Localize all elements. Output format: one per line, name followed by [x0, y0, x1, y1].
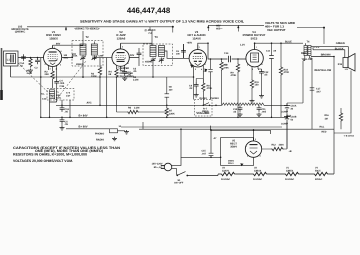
heater chain wire — [218, 129, 334, 175]
label V4 — [243, 30, 266, 40]
svg-text:2: 2 — [247, 155, 248, 158]
capacitor C17 — [310, 88, 315, 90]
output transformer T4 — [304, 46, 311, 56]
svg-text:2: 2 — [190, 64, 191, 67]
svg-text:5: 5 — [122, 46, 123, 49]
svg-text:C1B: C1B — [60, 85, 65, 88]
wire plug top — [172, 157, 221, 165]
resistor R1 — [29, 58, 32, 68]
B+ 90V bus wire — [66, 128, 110, 130]
svg-text:6: 6 — [205, 63, 206, 66]
wire V1 plate to T2 — [53, 44, 83, 57]
ground phono — [124, 130, 129, 134]
svg-text:12BA6: 12BA6 — [117, 36, 126, 40]
svg-text:400∼: 400∼ — [216, 28, 223, 31]
power plug — [161, 163, 172, 171]
svg-text:T2: T2 — [86, 36, 90, 39]
svg-text:RADIO: RADIO — [96, 138, 104, 141]
svg-text:C16A: C16A — [291, 105, 297, 108]
phono bus wire — [121, 127, 334, 129]
svg-text:C5A: C5A — [73, 55, 78, 58]
svg-text:GROUNDED: GROUNDED — [120, 72, 134, 75]
svg-text:@600KC: @600KC — [15, 31, 26, 34]
svg-text:1/2T: 1/2T — [66, 94, 71, 97]
svg-text:446,447,448: 446,447,448 — [127, 6, 171, 15]
svg-text:B+ 90V: B+ 90V — [79, 126, 88, 129]
junction dot secondary return — [333, 56, 335, 58]
svg-text:B+ 84V: B+ 84V — [79, 114, 88, 117]
svg-text:6: 6 — [61, 50, 62, 53]
svg-text:+B: +B — [289, 150, 292, 153]
svg-text:2: 2 — [113, 62, 114, 65]
label V2 — [116, 30, 126, 40]
svg-text:7: 7 — [54, 46, 55, 49]
wire phono — [118, 130, 126, 132]
svg-text:GD: GD — [169, 86, 173, 89]
svg-text:2: 2 — [247, 64, 248, 67]
svg-text:RADIO: RADIO — [200, 97, 208, 100]
wire T3 B+ feed — [151, 31, 153, 46]
wire R2 to osc coil — [50, 80, 57, 102]
wire plug bottom — [172, 169, 218, 176]
arrow bottom wire — [240, 163, 243, 166]
svg-text:50V: 50V — [130, 54, 135, 57]
svg-text:50C5: 50C5 — [315, 169, 321, 172]
tube V2 — [112, 43, 129, 66]
resistor R3 — [98, 66, 101, 76]
label V5 — [230, 140, 237, 149]
label V3 — [187, 30, 206, 40]
resistor R12 — [271, 147, 284, 150]
measurement line segment 1 — [27, 27, 173, 33]
capacitor C2 — [35, 58, 40, 65]
wire T2 sec to V2 — [72, 54, 112, 77]
svg-text:VAC OUTPUT: VAC OUTPUT — [267, 28, 286, 32]
node 455kc gain — [144, 29, 155, 35]
capacitor C3 — [60, 117, 65, 124]
svg-text:22K: 22K — [45, 73, 50, 76]
wire secondary return — [333, 57, 335, 130]
capacitor C15 — [209, 130, 214, 157]
svg-text:.047: .047 — [202, 153, 207, 156]
tube V1 — [44, 45, 62, 66]
T3 trimmer C8B — [159, 58, 165, 63]
wire V2 plate to T3 — [121, 43, 152, 57]
measurement line segment 2 — [208, 25, 264, 31]
svg-text:NEG: NEG — [64, 57, 69, 60]
resistor R8 — [202, 82, 205, 92]
svg-text:2: 2 — [45, 63, 46, 66]
svg-text:SENSITIVITY AND STAGE GAINS AT: SENSITIVITY AND STAGE GAINS AT ½ WATT OU… — [80, 19, 244, 23]
wire green to speaker — [306, 43, 349, 57]
T2 secondary winding — [91, 44, 97, 55]
svg-text:3: 3 — [195, 68, 196, 71]
junction dots volume feed — [210, 58, 223, 60]
resistor R11 cathode — [250, 79, 253, 89]
svg-text:BLACK: BLACK — [335, 47, 344, 50]
ground C10 — [238, 113, 243, 117]
IF transformer T2 dashed box — [72, 41, 103, 67]
svg-text:4700: 4700 — [284, 71, 290, 74]
resistor R4 — [115, 68, 118, 78]
pin numbers V1 — [44, 46, 62, 71]
svg-text:12AV6: 12AV6 — [192, 36, 201, 40]
electrolytic C16A — [284, 103, 290, 112]
rectifier wiring box — [221, 137, 254, 165]
ground C7 — [122, 77, 127, 81]
wire R9 — [237, 59, 239, 117]
svg-text:C1D: C1D — [42, 97, 47, 100]
svg-text:TAP: TAP — [120, 70, 125, 73]
wire C9 R8 down — [196, 79, 203, 106]
node 105 microvolts — [11, 26, 28, 34]
svg-text:50C5: 50C5 — [251, 36, 258, 40]
heater V1 — [284, 172, 300, 175]
wire chassis stub — [334, 71, 351, 134]
svg-text:470K: 470K — [231, 74, 237, 77]
capacitor C10 — [238, 105, 243, 112]
wire volume feed — [194, 59, 222, 100]
ground input — [28, 69, 33, 73]
svg-text:1: 1 — [246, 145, 247, 148]
pin numbers V4 — [246, 46, 263, 71]
wire R16 — [340, 108, 342, 129]
svg-text:1M: 1M — [325, 117, 328, 120]
junction dots input — [23, 57, 39, 59]
wire brown return — [311, 56, 334, 58]
ground C9 — [194, 93, 199, 97]
pin numbers V2 — [112, 46, 129, 70]
svg-text:T3: T3 — [155, 36, 159, 39]
electrolytic C16B — [284, 114, 290, 122]
pin numbers V3 — [189, 46, 206, 71]
tuning gang dashed — [18, 61, 86, 100]
wire R10 down — [221, 71, 223, 105]
T2 trimmer C5B — [92, 56, 98, 61]
svg-text:1000: 1000 — [279, 144, 285, 147]
svg-text:AVC: AVC — [87, 102, 92, 105]
tube V4 — [246, 44, 263, 67]
resistor R10 — [220, 61, 223, 71]
svg-text:3: 3 — [252, 68, 253, 71]
T3 secondary winding — [159, 46, 165, 57]
B+ 84V bus wire — [41, 116, 287, 118]
svg-text:C5B: C5B — [99, 55, 104, 58]
svg-text:VOLUME: VOLUME — [196, 111, 209, 115]
switch wire — [194, 103, 222, 106]
wire V4 cathode — [252, 66, 258, 79]
ground C3 — [60, 126, 65, 130]
pin numbers V5 — [246, 138, 263, 158]
V3 diode arrows — [191, 65, 208, 72]
svg-text:1.2V: 1.2V — [240, 43, 245, 46]
heater V2 — [252, 172, 268, 175]
svg-text:12.6VAC: 12.6VAC — [221, 178, 230, 181]
svg-text:C15: C15 — [202, 150, 207, 153]
svg-text:GREEN: GREEN — [336, 42, 345, 45]
svg-text:BLUE: BLUE — [285, 40, 292, 43]
svg-text:C16B: C16B — [291, 116, 297, 119]
T3 primary winding — [150, 46, 156, 57]
svg-text:+65V: +65V — [187, 42, 193, 45]
junction dots AVC — [40, 76, 194, 78]
wire V3 pins down — [184, 44, 204, 82]
wire R4 down — [116, 78, 118, 105]
antenna L1 loop — [4, 51, 19, 66]
wire antenna row — [11, 58, 44, 77]
osc coil winding — [50, 90, 55, 99]
svg-text:R15: R15 — [338, 63, 343, 66]
ground C12 — [259, 94, 264, 98]
measurement arrowheads — [65, 25, 325, 29]
junction dots power — [180, 128, 221, 158]
AVC bus wire — [11, 76, 194, 78]
svg-text:6: 6 — [262, 63, 263, 66]
svg-text:R12: R12 — [272, 144, 277, 147]
speaker LS — [343, 54, 355, 72]
svg-text:3: 3 — [255, 138, 256, 141]
svg-text:12BE6: 12BE6 — [49, 36, 58, 40]
heater V3 — [220, 172, 236, 175]
wire R14 — [280, 44, 282, 118]
svg-text:RED: RED — [322, 130, 327, 133]
svg-text:PHONO: PHONO — [95, 133, 104, 136]
svg-text:470K: 470K — [207, 87, 213, 90]
T2 trimmer C5A — [80, 56, 86, 61]
svg-text:1: 1 — [189, 54, 190, 57]
svg-text:VOLTAGES 20,000 OHMS/VOLT VOM.: VOLTAGES 20,000 OHMS/VOLT VOM. — [13, 159, 73, 163]
junction dots plate line — [207, 42, 282, 44]
svg-text:.005: .005 — [262, 111, 267, 114]
volume control dashed box — [195, 100, 213, 117]
svg-text:ALL: ALL — [41, 93, 46, 96]
wire V3 plate top — [198, 43, 208, 45]
svg-text:12.6VAC: 12.6VAC — [285, 178, 294, 181]
junction grid V4 — [237, 58, 239, 60]
capacitor C9b — [165, 94, 170, 97]
notes text — [13, 146, 121, 163]
junction dot V5 top — [253, 130, 255, 132]
svg-text:12BE6: 12BE6 — [286, 169, 294, 172]
ground C11 — [257, 113, 262, 117]
svg-text:7: 7 — [199, 46, 200, 49]
wire C16 down — [286, 112, 288, 149]
svg-text:RED: RED — [301, 52, 306, 55]
svg-text:1: 1 — [246, 54, 247, 57]
phono jack — [110, 129, 118, 133]
page edge line — [1, 48, 3, 100]
svg-text:C14: C14 — [224, 52, 229, 55]
IF transformer T3 dashed box — [143, 44, 173, 66]
wire V5 plate feed — [211, 126, 271, 138]
wire T2 B+ feed — [83, 31, 94, 44]
capacitor C8 — [181, 48, 186, 55]
wire C3 — [61, 124, 63, 126]
bus L1 wire — [56, 104, 194, 106]
svg-text:7: 7 — [261, 145, 262, 148]
svg-text:455KC: 455KC — [145, 61, 153, 64]
svg-text:−(600KC TO 455KC)−: −(600KC TO 455KC)− — [74, 27, 100, 30]
wire C9b column — [166, 77, 168, 105]
wire V2 pins down — [117, 65, 125, 70]
wire radio riser — [142, 122, 144, 129]
capacitor C10a — [208, 69, 212, 72]
capacitor C12 — [259, 69, 264, 76]
svg-text:470K: 470K — [224, 66, 230, 69]
svg-text:455KC: 455KC — [76, 63, 84, 66]
svg-text:ON–OFF: ON–OFF — [174, 182, 184, 185]
T2 primary winding — [80, 44, 86, 55]
svg-text:12BA6: 12BA6 — [254, 169, 262, 172]
capacitor C13a — [60, 105, 65, 112]
svg-text:PIN 3: PIN 3 — [228, 162, 234, 165]
svg-text:.047: .047 — [316, 91, 321, 94]
svg-text:6: 6 — [128, 62, 129, 65]
wire tone line — [264, 104, 287, 106]
wire V4 plate to T4 — [255, 42, 303, 44]
capacitor C9 — [194, 82, 199, 89]
svg-text:7: 7 — [256, 46, 257, 49]
capacitor C14 — [229, 56, 231, 62]
svg-text:1: 1 — [112, 53, 113, 56]
svg-text:330K: 330K — [169, 113, 175, 116]
junction dot C16 bus — [286, 116, 288, 118]
wire R11 ground — [251, 89, 253, 99]
ground R11 — [250, 99, 255, 103]
tube V3 — [189, 45, 206, 67]
svg-text:2.2M: 2.2M — [133, 79, 138, 82]
resistor R2 — [51, 70, 54, 80]
svg-text:35W4: 35W4 — [228, 160, 234, 163]
svg-text:R16: R16 — [325, 114, 330, 117]
wire V3 to V4 coupling — [208, 43, 246, 59]
svg-text:105–120V: 105–120V — [152, 163, 163, 166]
wire T3 sec to V3 — [153, 51, 189, 77]
resistor R14 — [279, 66, 282, 76]
wire V4 screen drop — [271, 44, 273, 118]
wire R12 — [262, 122, 287, 149]
capacitor C11 — [257, 105, 262, 112]
wire black to speaker — [313, 48, 345, 59]
center tap note — [120, 67, 135, 78]
capacitor C4 — [54, 79, 59, 86]
heater V4 — [313, 172, 329, 175]
resistor R9 — [236, 63, 239, 73]
svg-text:RED/YELLOW: RED/YELLOW — [315, 69, 332, 72]
resistor R330K — [165, 107, 168, 117]
wire R3 — [100, 58, 107, 118]
svg-text:T–B CHAS: T–B CHAS — [344, 135, 355, 138]
switch contacts — [203, 105, 217, 107]
wire yellow down — [287, 56, 305, 104]
osc coil T1 dashed box — [47, 89, 74, 101]
svg-text:2.2M: 2.2M — [134, 107, 139, 110]
svg-text:LS: LS — [345, 68, 348, 71]
junction dot T2 — [72, 57, 84, 78]
svg-text:12AV6: 12AV6 — [222, 169, 230, 172]
svg-text:12.6VAC: 12.6VAC — [253, 178, 262, 181]
junction dots buses — [40, 105, 272, 119]
wire plug rail riser — [180, 129, 182, 157]
svg-text:3: 3 — [50, 68, 51, 71]
capacitor C13 — [269, 56, 274, 59]
svg-text:RESISTORS IN OHMS, K=1000, M=1: RESISTORS IN OHMS, K=1000, M=1,000,000 — [13, 153, 87, 157]
T3 trimmer C8A — [150, 58, 156, 63]
switch S1 — [178, 172, 186, 176]
svg-text:35W4: 35W4 — [230, 146, 237, 149]
resistor R6 2.2M — [127, 110, 139, 113]
tube V5 — [245, 137, 261, 157]
svg-text:5: 5 — [60, 64, 61, 67]
svg-text:3: 3 — [118, 67, 119, 70]
svg-text:COIL: COIL — [56, 96, 62, 99]
svg-text:1: 1 — [44, 53, 45, 56]
capacitor C1A — [21, 54, 26, 61]
svg-text:PHONO: PHONO — [211, 97, 220, 100]
svg-text:BROWN: BROWN — [321, 54, 331, 57]
measurement line segment 3 — [297, 28, 324, 44]
resistor R16 — [339, 112, 342, 122]
svg-text:60∼,AC: 60∼,AC — [154, 166, 163, 169]
svg-text:TO CHASSIS: TO CHASSIS — [120, 75, 135, 78]
wire red-yellow down — [310, 56, 313, 130]
label V1 — [46, 30, 61, 40]
tone coil winding — [222, 103, 264, 105]
capacitor C7 — [122, 69, 127, 76]
wire V1 pins down — [41, 58, 57, 118]
wire osc coil down — [50, 99, 71, 118]
svg-text:OSC: OSC — [56, 94, 61, 97]
svg-text:50VAC: 50VAC — [315, 178, 323, 181]
svg-text:150: 150 — [255, 84, 260, 87]
capacitor C6 — [137, 51, 142, 58]
svg-text:100K: 100K — [91, 75, 97, 78]
R6 link wire — [117, 105, 167, 117]
ground radio — [112, 137, 117, 141]
svg-text:R&L: R&L — [320, 125, 325, 128]
note text top right — [265, 21, 295, 32]
